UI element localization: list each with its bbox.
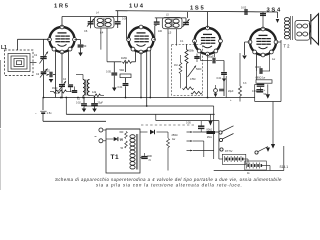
svg-text:1MΩ: 1MΩ bbox=[52, 87, 57, 90]
svg-text:500: 500 bbox=[148, 154, 153, 158]
svg-text:1w: 1w bbox=[272, 58, 275, 61]
svg-text:0.02: 0.02 bbox=[45, 69, 51, 73]
svg-text:67.5v: 67.5v bbox=[225, 149, 233, 153]
svg-text:Schema di apparecchio superete: Schema di apparecchio supereterodina a 4… bbox=[55, 177, 282, 182]
svg-text:0.01: 0.01 bbox=[118, 86, 123, 89]
svg-text:50Ω: 50Ω bbox=[120, 69, 125, 72]
svg-text:0.01: 0.01 bbox=[217, 77, 222, 80]
svg-text:0.02: 0.02 bbox=[76, 102, 81, 105]
svg-text:0.004: 0.004 bbox=[255, 66, 262, 69]
svg-text:250Ω: 250Ω bbox=[172, 134, 178, 137]
svg-text:680Ω 1w: 680Ω 1w bbox=[256, 77, 266, 80]
svg-text:4w: 4w bbox=[172, 138, 175, 141]
svg-text:L4: L4 bbox=[100, 31, 104, 35]
svg-text:3S4: 3S4 bbox=[267, 7, 282, 13]
svg-text:500k: 500k bbox=[189, 50, 195, 53]
svg-text:T 2: T 2 bbox=[284, 44, 291, 49]
svg-text:1MΩ: 1MΩ bbox=[121, 56, 127, 60]
svg-text:0.05: 0.05 bbox=[106, 71, 111, 74]
svg-text:0.05: 0.05 bbox=[186, 122, 191, 125]
svg-text:+: + bbox=[264, 88, 266, 92]
svg-text:L5: L5 bbox=[168, 31, 172, 35]
svg-text:1R5: 1R5 bbox=[54, 3, 70, 9]
svg-text:Ø1w: Ø1w bbox=[207, 137, 212, 139]
svg-text:0.5M: 0.5M bbox=[190, 78, 195, 81]
svg-text:0.02: 0.02 bbox=[241, 6, 247, 10]
svg-text:1U4: 1U4 bbox=[129, 3, 145, 9]
svg-text:100: 100 bbox=[158, 30, 163, 33]
svg-text:~: ~ bbox=[94, 134, 97, 139]
svg-text:5000: 5000 bbox=[196, 68, 202, 71]
svg-text:12k: 12k bbox=[92, 90, 97, 94]
svg-text:20μF: 20μF bbox=[228, 90, 234, 93]
svg-text:1M: 1M bbox=[174, 64, 177, 67]
svg-text:T1: T1 bbox=[111, 154, 120, 161]
svg-text:sia a pila sia con la tensione: sia a pila sia con la tensione alternata… bbox=[96, 182, 243, 187]
svg-text:S14.1: S14.1 bbox=[280, 165, 289, 169]
svg-text:1.5v: 1.5v bbox=[47, 111, 53, 115]
svg-text:C6: C6 bbox=[84, 29, 88, 33]
svg-text:0.05: 0.05 bbox=[122, 18, 127, 21]
svg-text:1S5: 1S5 bbox=[190, 5, 205, 11]
svg-text:50pF: 50pF bbox=[208, 56, 214, 59]
svg-text:20μF: 20μF bbox=[98, 102, 104, 105]
